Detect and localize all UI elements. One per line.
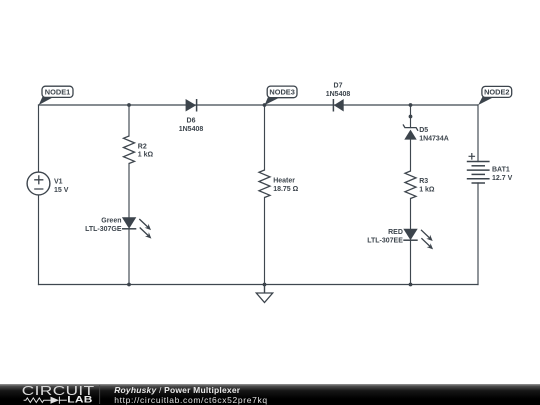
- resistor R2: [124, 136, 154, 164]
- svg-text:18.75 Ω: 18.75 Ω: [273, 186, 298, 193]
- junction dot heater top: [263, 103, 267, 107]
- LED D_green LTL-307GE: [85, 217, 151, 238]
- LED D_red LTL-307EE: [367, 229, 433, 250]
- diode D6 1N5408: [179, 99, 204, 133]
- node NODE3: [265, 86, 297, 105]
- diode D7 1N5408: [326, 83, 351, 112]
- resistor R3: [405, 171, 435, 199]
- svg-text:V1: V1: [54, 178, 63, 185]
- node NODE2: [478, 86, 511, 105]
- CircuitLab logo schematic squiggle: [24, 397, 67, 404]
- junction dot R2 top: [127, 103, 131, 107]
- wire bottom rail: [39, 284, 479, 286]
- svg-text:RED: RED: [388, 229, 403, 236]
- wire R2 branch: [128, 105, 130, 285]
- junction dot ground: [263, 283, 267, 287]
- wire zener branch: [410, 105, 412, 285]
- svg-text:Royhusky / Power Multiplexer: Royhusky / Power Multiplexer: [114, 385, 241, 395]
- svg-text:D7: D7: [334, 83, 343, 90]
- wire heater branch: [264, 105, 266, 285]
- svg-text:LTL-307GE: LTL-307GE: [85, 226, 122, 233]
- svg-text:R3: R3: [419, 178, 428, 185]
- svg-text:Green: Green: [101, 217, 121, 224]
- wire left rail: [38, 105, 40, 285]
- svg-text:LAB: LAB: [67, 395, 92, 405]
- svg-text:1 kΩ: 1 kΩ: [138, 152, 154, 159]
- svg-text:NODE3: NODE3: [269, 88, 294, 97]
- resistor Heater: [259, 170, 299, 198]
- svg-text:BAT1: BAT1: [492, 167, 510, 174]
- zener diode D5 1N4734A: [403, 124, 449, 142]
- svg-text:1N5408: 1N5408: [179, 126, 204, 133]
- svg-text:R2: R2: [138, 144, 147, 151]
- junction dot zener top: [409, 103, 413, 107]
- svg-text:1 kΩ: 1 kΩ: [419, 187, 435, 194]
- svg-text:http://circuitlab.com/ct6cx52p: http://circuitlab.com/ct6cx52pre7kq: [114, 395, 268, 405]
- ground: [256, 285, 272, 303]
- junction dot R2 bottom: [127, 283, 131, 287]
- svg-text:LTL-307EE: LTL-307EE: [367, 237, 403, 244]
- footer separator: [98, 385, 101, 404]
- svg-text:Heater: Heater: [273, 178, 295, 185]
- junction dot LED red bottom: [409, 283, 413, 287]
- svg-text:NODE1: NODE1: [45, 87, 70, 96]
- wire battery branch: [477, 105, 479, 285]
- footer bar: [0, 384, 540, 405]
- svg-text:NODE2: NODE2: [484, 88, 509, 97]
- junction dot zener stub: [409, 115, 413, 119]
- svg-text:15 V: 15 V: [54, 187, 69, 194]
- wire top rail: [39, 104, 479, 106]
- CircuitLab logo wordmark: [22, 384, 95, 405]
- svg-text:1N4734A: 1N4734A: [419, 136, 449, 143]
- svg-text:12.7 V: 12.7 V: [492, 175, 513, 182]
- battery BAT1: [467, 153, 513, 183]
- svg-text:D6: D6: [187, 117, 196, 124]
- svg-text:D5: D5: [419, 127, 428, 134]
- svg-text:1N5408: 1N5408: [326, 91, 351, 98]
- voltage source V1: [27, 172, 69, 195]
- node NODE1: [39, 86, 73, 105]
